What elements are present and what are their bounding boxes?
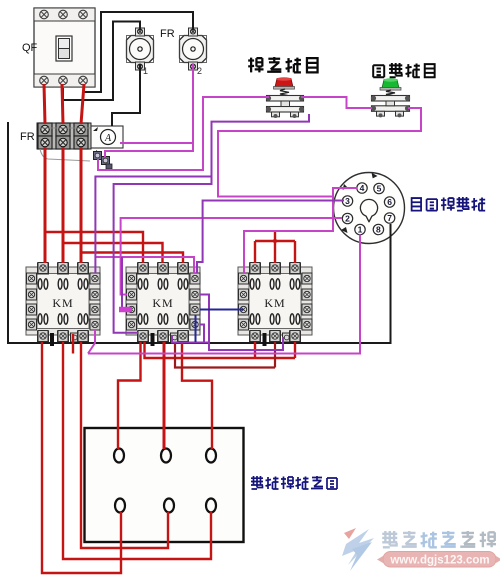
svg-text:3: 3: [345, 196, 350, 206]
svg-text:6: 6: [387, 197, 392, 207]
svg-text:8: 8: [376, 225, 381, 235]
svg-text:FR: FR: [20, 131, 35, 143]
svg-text:A: A: [104, 133, 112, 144]
svg-text:5: 5: [377, 184, 382, 194]
svg-text:7: 7: [387, 213, 392, 223]
svg-text:4: 4: [360, 183, 365, 193]
svg-text:2: 2: [197, 66, 202, 76]
svg-text:QF: QF: [22, 42, 38, 54]
svg-text:1: 1: [358, 225, 363, 235]
svg-text:2: 2: [345, 214, 350, 224]
svg-text:FR: FR: [160, 28, 175, 40]
svg-text:1: 1: [143, 66, 148, 76]
svg-text:www.dgjs123.com: www.dgjs123.com: [389, 555, 489, 567]
